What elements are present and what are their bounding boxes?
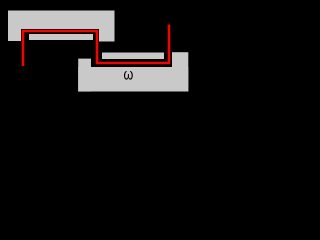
omega label xyxy=(124,71,133,80)
stator right block xyxy=(99,11,115,42)
rotor main plate xyxy=(78,67,188,92)
background xyxy=(0,0,192,96)
rotor right column xyxy=(172,52,188,91)
floating bar B xyxy=(29,34,93,40)
stator left column xyxy=(8,11,21,42)
labyrinth seal diagram xyxy=(0,0,192,96)
red leakage path xyxy=(23,25,169,67)
floating bar C xyxy=(102,53,164,60)
stator upper plate xyxy=(8,11,115,30)
rotor left block xyxy=(78,59,91,92)
